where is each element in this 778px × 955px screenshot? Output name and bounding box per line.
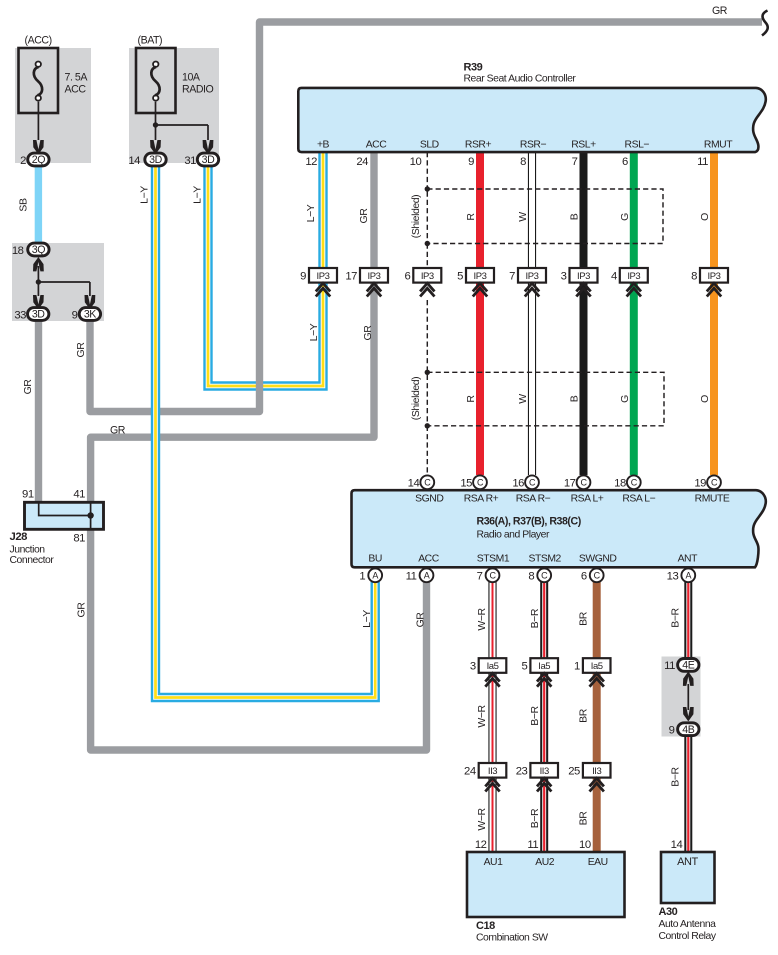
svg-text:11: 11 [697, 156, 708, 168]
wire SB from 2Q to 3Q [35, 165, 42, 243]
svg-text:16: 16 [512, 477, 524, 489]
svg-text:W−R: W−R [476, 704, 488, 727]
svg-text:4: 4 [611, 270, 617, 282]
svg-text:BR: BR [578, 811, 590, 826]
svg-text:41: 41 [73, 489, 85, 501]
svg-text:II3: II3 [540, 766, 549, 777]
svg-text:4E: 4E [682, 660, 694, 672]
svg-text:II3: II3 [488, 766, 497, 777]
svg-text:II3: II3 [592, 766, 601, 777]
svg-text:EAU: EAU [588, 857, 608, 868]
svg-text:A: A [372, 571, 378, 581]
connector 4 IP3 [620, 268, 648, 283]
junction dot inside J28 [87, 512, 93, 518]
svg-text:3: 3 [561, 270, 567, 282]
connector 15 C [473, 475, 487, 489]
svg-text:31: 31 [184, 155, 196, 167]
junction dot on shield at y=243.5 [425, 241, 430, 246]
svg-text:(BAT): (BAT) [138, 35, 163, 47]
svg-text:3D: 3D [202, 154, 215, 166]
svg-text:IP3: IP3 [526, 271, 539, 282]
connector 16 C [525, 475, 539, 489]
connector 8 IP3 [700, 268, 728, 283]
svg-text:R: R [465, 395, 477, 403]
svg-text:Combination SW: Combination SW [476, 933, 548, 944]
fuse block background (ACC) [15, 48, 91, 163]
connector 13 A [681, 568, 695, 582]
svg-text:IP3: IP3 [368, 271, 381, 282]
svg-text:J28: J28 [10, 531, 28, 543]
wire B-R STSM2 [540, 582, 548, 852]
svg-text:17: 17 [564, 477, 576, 489]
connector 23 II3 [530, 763, 558, 778]
wire GR from R39 ACC pin 24 to J28 pin 41 [91, 152, 374, 503]
svg-text:23: 23 [516, 765, 528, 777]
connector 3 Ia5 [479, 658, 507, 673]
arrow into 9 3K [85, 295, 96, 309]
connector 14 C [420, 475, 434, 489]
svg-text:RSA L−: RSA L− [622, 493, 655, 504]
svg-text:3: 3 [470, 661, 476, 673]
svg-text:10: 10 [579, 839, 591, 851]
svg-text:7: 7 [477, 570, 483, 582]
svg-text:W−R: W−R [476, 807, 488, 830]
svg-text:L−Y: L−Y [361, 610, 373, 628]
svg-text:B−R: B−R [529, 705, 541, 725]
junction block background 3Q/3D/3K [12, 243, 104, 321]
svg-text:R: R [465, 213, 477, 221]
svg-text:1: 1 [574, 661, 580, 673]
junction dot in 3Q block [36, 279, 41, 284]
arrow into 31 3D [203, 140, 214, 154]
connector 5 IP3 [466, 268, 494, 283]
svg-text:6: 6 [581, 570, 587, 582]
svg-text:G: G [619, 395, 631, 403]
wire L-Y from 14 3D to radio BU pin 1 [156, 165, 376, 698]
svg-text:RMUTE: RMUTE [695, 493, 730, 504]
connector 31 3D [197, 153, 218, 166]
svg-text:C: C [489, 571, 496, 581]
svg-text:11: 11 [406, 570, 417, 582]
relay box A30 Auto Antenna Control Relay [661, 852, 715, 903]
svg-text:RSL+: RSL+ [571, 139, 596, 150]
svg-text:W−R: W−R [476, 607, 488, 630]
wire W-R STSM1 [488, 582, 496, 852]
svg-text:Ia5: Ia5 [591, 661, 603, 672]
svg-text:L−Y: L−Y [139, 186, 151, 204]
svg-text:L−Y: L−Y [191, 186, 203, 204]
svg-text:C: C [594, 571, 601, 581]
wire GR from 9 3K up to top edge (off-page right) [90, 22, 762, 412]
svg-text:STSM1: STSM1 [477, 554, 510, 565]
junction connector J28 [25, 502, 104, 529]
svg-text:G: G [619, 213, 631, 221]
svg-text:91: 91 [22, 489, 34, 501]
svg-text:W: W [517, 394, 529, 404]
junction dot on shield at y=372.3 [425, 370, 430, 375]
svg-text:SGND: SGND [415, 493, 443, 504]
svg-text:B: B [569, 213, 581, 220]
svg-text:R36(A), R37(B), R38(C): R36(A), R37(B), R38(C) [477, 515, 581, 527]
svg-text:11: 11 [664, 660, 675, 672]
svg-text:ACC: ACC [366, 139, 388, 150]
connector 6 IP3 [413, 268, 441, 283]
svg-text:L−Y: L−Y [308, 323, 320, 341]
connector 17 IP3 [360, 268, 388, 283]
svg-text:6: 6 [404, 270, 410, 282]
svg-text:SLD: SLD [420, 139, 439, 150]
wire B-R ANT lower [684, 735, 692, 852]
connector 17 C [577, 475, 591, 489]
connector 25 II3 [583, 763, 611, 778]
svg-text:IP3: IP3 [627, 271, 640, 282]
svg-text:W: W [517, 212, 529, 222]
svg-text:RSA R+: RSA R+ [464, 493, 499, 504]
svg-text:AU1: AU1 [484, 857, 504, 868]
svg-text:24: 24 [356, 156, 368, 168]
svg-text:13: 13 [667, 570, 679, 582]
junction dot on shield at y=189 [425, 186, 430, 191]
svg-text:14: 14 [128, 155, 140, 167]
wire R RSR+ [476, 152, 484, 475]
svg-text:C: C [424, 478, 431, 488]
fuse 10A RADIO [136, 48, 176, 113]
svg-text:17: 17 [345, 270, 357, 282]
svg-text:Rear Seat Audio Controller: Rear Seat Audio Controller [464, 74, 577, 85]
connector 6 C [590, 568, 604, 582]
arrow into 14 3D [150, 140, 161, 154]
svg-text:25: 25 [568, 765, 580, 777]
svg-text:7: 7 [509, 270, 515, 282]
svg-text:18: 18 [12, 245, 24, 257]
svg-text:6: 6 [622, 156, 628, 168]
svg-text:ANT: ANT [677, 856, 698, 868]
svg-text:O: O [699, 395, 711, 403]
svg-text:18: 18 [614, 477, 626, 489]
svg-text:C: C [631, 478, 638, 488]
svg-text:Radio and Player: Radio and Player [477, 529, 551, 540]
svg-text:10A: 10A [182, 72, 201, 84]
arrow into 2Q [33, 140, 44, 154]
connector 11 4E [678, 659, 699, 672]
svg-text:IP3: IP3 [474, 271, 487, 282]
connector 14 3D [145, 153, 166, 166]
svg-text:RADIO: RADIO [182, 84, 214, 96]
wire L-Y from connector 31 3D to +B pin 12 (under gray) [208, 152, 323, 386]
connector 9 IP3 [309, 268, 337, 283]
svg-text:C: C [529, 478, 536, 488]
arrow up below 4E [683, 672, 694, 686]
svg-text:81: 81 [73, 533, 85, 545]
svg-text:A30: A30 [659, 906, 678, 918]
svg-text:12: 12 [475, 839, 487, 851]
svg-text:Ia5: Ia5 [487, 661, 499, 672]
svg-text:RSL−: RSL− [625, 139, 650, 150]
svg-text:SB: SB [18, 198, 30, 212]
svg-text:Connector: Connector [10, 555, 55, 566]
svg-text:9: 9 [300, 270, 306, 282]
svg-text:A: A [686, 571, 692, 581]
svg-text:B−R: B−R [670, 766, 682, 786]
svg-text:B−R: B−R [670, 607, 682, 627]
connector 18 C [627, 475, 641, 489]
connector 5 Ia5 [530, 658, 558, 673]
svg-text:BR: BR [578, 611, 590, 626]
svg-text:B: B [569, 395, 581, 402]
svg-text:Control Relay: Control Relay [659, 931, 717, 942]
svg-text:9: 9 [72, 309, 78, 321]
svg-text:IP3: IP3 [421, 271, 434, 282]
svg-text:RSA L+: RSA L+ [571, 493, 604, 504]
svg-text:GR: GR [712, 5, 728, 17]
svg-text:3D: 3D [149, 154, 162, 166]
svg-text:GR: GR [22, 379, 34, 395]
arrow into 33 3D [33, 295, 44, 309]
svg-text:Ia5: Ia5 [538, 661, 550, 672]
svg-text:GR: GR [110, 425, 126, 437]
svg-text:GR: GR [75, 342, 87, 358]
connector 9 4B [678, 723, 699, 736]
svg-text:(Shielded): (Shielded) [410, 195, 422, 238]
svg-text:ACC: ACC [65, 84, 87, 96]
svg-text:8: 8 [691, 270, 697, 282]
svg-text:A: A [424, 571, 430, 581]
svg-text:O: O [699, 213, 711, 221]
wire BR SWGND [593, 582, 601, 852]
svg-text:8: 8 [520, 156, 526, 168]
connector 2 2Q [28, 153, 49, 166]
svg-text:RSR−: RSR− [520, 139, 547, 150]
svg-text:12: 12 [305, 156, 317, 168]
svg-text:11: 11 [527, 839, 538, 851]
shield box 1 (Shielded) [427, 189, 663, 244]
svg-text:8: 8 [528, 570, 534, 582]
fuse block background (BAT) [129, 48, 219, 163]
arrow up into 3Q [33, 257, 44, 271]
svg-text:10: 10 [410, 156, 422, 168]
svg-text:BU: BU [368, 554, 382, 565]
svg-text:STSM2: STSM2 [528, 554, 561, 565]
wire GR from J28 pin 81 to radio ACC pin 11 [91, 528, 427, 750]
svg-text:15: 15 [460, 477, 472, 489]
svg-text:IP3: IP3 [577, 271, 590, 282]
wire W RSR- [528, 152, 536, 475]
connector 8 C [537, 568, 551, 582]
arrow down above 4B [683, 707, 694, 721]
svg-text:GR: GR [76, 602, 88, 618]
svg-text:RSA R−: RSA R− [516, 493, 551, 504]
connector 7 C [486, 568, 500, 582]
svg-text:9: 9 [669, 725, 675, 737]
wire O RMUT [710, 152, 718, 475]
connector 1 A [368, 568, 382, 582]
svg-text:5: 5 [457, 270, 463, 282]
svg-text:R39: R39 [464, 62, 483, 74]
svg-text:3Q: 3Q [32, 244, 45, 256]
svg-text:33: 33 [14, 309, 26, 321]
svg-text:L−Y: L−Y [305, 204, 317, 222]
svg-text:14: 14 [408, 477, 420, 489]
svg-text:IP3: IP3 [317, 271, 330, 282]
wire B-R ANT upper [684, 582, 692, 660]
connector 18 3Q [28, 243, 49, 256]
connector 19 C [707, 475, 721, 489]
svg-text:2: 2 [20, 155, 26, 167]
svg-text:RSR+: RSR+ [465, 139, 492, 150]
svg-text:C18: C18 [476, 920, 495, 932]
wire B RSL+ [580, 152, 588, 475]
junction dot on shield at y=425.8 [425, 423, 430, 428]
svg-text:3D: 3D [32, 309, 45, 321]
svg-text:C: C [477, 478, 484, 488]
connector 7 IP3 [518, 268, 546, 283]
svg-text:GR: GR [415, 612, 427, 628]
svg-text:(ACC): (ACC) [25, 35, 52, 47]
ECU box R36/R37/R38 Radio and Player [352, 490, 766, 567]
svg-text:14: 14 [671, 839, 683, 851]
shield box 2 (Shielded) [427, 372, 664, 426]
connector 9 3K [79, 308, 100, 321]
svg-text:AU2: AU2 [535, 857, 555, 868]
wire SLD shield drain (dashed) [426, 152, 428, 189]
connector 24 II3 [479, 763, 507, 778]
svg-text:(Shielded): (Shielded) [410, 377, 422, 420]
svg-text:B−R: B−R [529, 808, 541, 828]
svg-text:BR: BR [578, 708, 590, 723]
ECU box R39 Rear Seat Audio Controller [298, 88, 766, 152]
svg-text:C: C [711, 478, 718, 488]
svg-text:7: 7 [572, 156, 578, 168]
svg-text:C: C [580, 478, 587, 488]
svg-text:GR: GR [358, 208, 370, 224]
svg-text:19: 19 [694, 477, 706, 489]
wire GR from 33 3D to J28 pin 91 [35, 320, 42, 503]
svg-text:C: C [541, 571, 548, 581]
fuse 7.5A ACC [19, 48, 59, 113]
svg-text:GR: GR [362, 325, 374, 341]
connector 11 A [420, 568, 434, 582]
connector 33 3D [28, 308, 49, 321]
wire G RSL- [630, 152, 638, 475]
svg-text:3K: 3K [84, 309, 96, 321]
switch box C18 Combination SW [467, 852, 625, 917]
svg-text:2Q: 2Q [32, 154, 45, 166]
svg-text:ACC: ACC [418, 554, 440, 565]
svg-text:B−R: B−R [529, 608, 541, 628]
svg-text:5: 5 [522, 661, 528, 673]
svg-text:RMUT: RMUT [704, 139, 733, 150]
connector 3 IP3 [570, 268, 598, 283]
svg-text:1: 1 [359, 570, 365, 582]
wire break squiggle (GR continues off-page) [762, 11, 768, 36]
svg-text:IP3: IP3 [708, 271, 721, 282]
svg-text:4B: 4B [682, 724, 694, 736]
svg-text:7. 5A: 7. 5A [65, 72, 89, 84]
svg-text:Auto Antenna: Auto Antenna [659, 919, 717, 930]
svg-text:ANT: ANT [678, 554, 699, 565]
svg-text:24: 24 [464, 765, 476, 777]
junction dot under fuse [153, 122, 158, 127]
svg-text:SWGND: SWGND [579, 554, 617, 565]
connector 1 Ia5 [583, 658, 611, 673]
svg-text:9: 9 [468, 156, 474, 168]
connector block background 4E/4B [662, 657, 701, 737]
svg-text:+B: +B [317, 139, 330, 150]
